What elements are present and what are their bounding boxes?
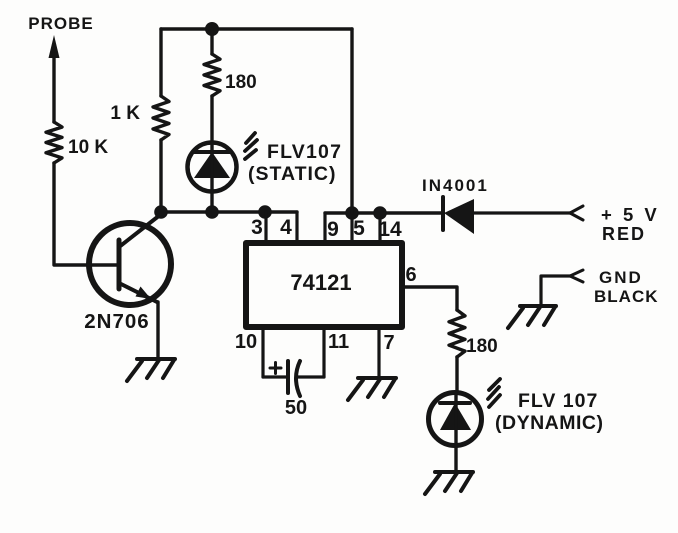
+5V connector [570, 206, 583, 220]
pin 14 stub [378, 213, 381, 240]
pin 5 stub [350, 213, 353, 240]
wire 180 top [210, 29, 213, 54]
GND connector [570, 270, 583, 282]
svg-text:6: 6 [405, 264, 416, 286]
svg-text:180: 180 [466, 336, 498, 357]
diode IN4001 [443, 197, 474, 234]
svg-text:RED: RED [602, 224, 646, 244]
wire cap to pin11 [297, 375, 324, 378]
collector rail wire [161, 210, 297, 213]
svg-text:10 K: 10 K [68, 137, 108, 158]
resistor 1K [153, 96, 169, 140]
svg-text:GND: GND [599, 268, 643, 287]
transistor Q1 2N706 [89, 215, 171, 305]
IC U1 74121 [246, 243, 402, 327]
resistor 180 (dynamic) [449, 310, 465, 357]
svg-text:IN4001: IN4001 [422, 176, 489, 195]
svg-text:FLV107: FLV107 [267, 141, 342, 163]
wire emitter down [156, 302, 159, 358]
node dot pin14 [373, 206, 387, 220]
wire pin10 to cap [263, 375, 288, 378]
wire LED2 to ground [454, 446, 457, 471]
light rays D1 [245, 133, 257, 159]
resistor 180 (static) [204, 54, 220, 96]
svg-text:5: 5 [353, 217, 365, 240]
svg-text:180: 180 [225, 72, 257, 93]
svg-text:BLACK: BLACK [594, 287, 659, 306]
pin 11 stub [322, 330, 325, 377]
node dot top rail [205, 22, 219, 36]
pin 4 stub [295, 212, 298, 240]
svg-text:(DYNAMIC): (DYNAMIC) [495, 412, 603, 434]
svg-text:3: 3 [251, 216, 263, 239]
svg-text:1 K: 1 K [110, 103, 140, 124]
wire top rail to pin5 [350, 29, 353, 213]
pin 7 stub [377, 330, 380, 377]
svg-text:2N706: 2N706 [84, 310, 149, 333]
svg-text:(STATIC): (STATIC) [248, 163, 337, 185]
probe arrow [49, 35, 60, 122]
svg-text:74121: 74121 [290, 270, 351, 295]
svg-text:11: 11 [328, 331, 349, 353]
wire 1K top [159, 29, 162, 96]
pin 10 stub [261, 330, 264, 377]
ground (LED2) [425, 472, 473, 494]
LED D2 FLV107 dynamic [429, 393, 482, 447]
node dot collector-1K [154, 205, 168, 219]
wire diode to +5V connector [474, 211, 570, 214]
ground (GND black) [508, 306, 556, 328]
wire probe to base [54, 163, 117, 265]
svg-text:4: 4 [280, 216, 292, 239]
LED D1 FLV107 static [188, 143, 237, 213]
node dot LED1 bottom [205, 205, 219, 219]
pin 9 stub [323, 213, 326, 240]
wire 180 to LED [210, 96, 213, 143]
light rays D2 [488, 379, 500, 407]
wire 180 to LED2 [455, 357, 458, 393]
node dot pin5 [345, 206, 359, 220]
pin 6 wire [403, 287, 457, 310]
svg-text:7: 7 [383, 332, 394, 354]
svg-text:10: 10 [235, 331, 257, 353]
svg-text:PROBE: PROBE [28, 14, 93, 33]
svg-text:14: 14 [378, 218, 402, 241]
top rail wire [161, 27, 352, 30]
svg-text:9: 9 [327, 218, 339, 241]
svg-text:FLV 107: FLV 107 [518, 390, 598, 412]
capacitor C1 50 [270, 361, 300, 396]
ground (pin 7) [348, 378, 396, 400]
wire 1K bottom [159, 140, 162, 212]
+5V rail wire [325, 211, 443, 214]
resistor 10K [46, 122, 62, 163]
svg-text:+ 5 V: + 5 V [601, 204, 660, 225]
ground (emitter) [127, 359, 175, 381]
node dot pin3 [258, 205, 272, 219]
svg-text:50: 50 [285, 397, 307, 419]
pin 3 stub [264, 212, 267, 240]
wire GND connector to ground [541, 276, 570, 305]
